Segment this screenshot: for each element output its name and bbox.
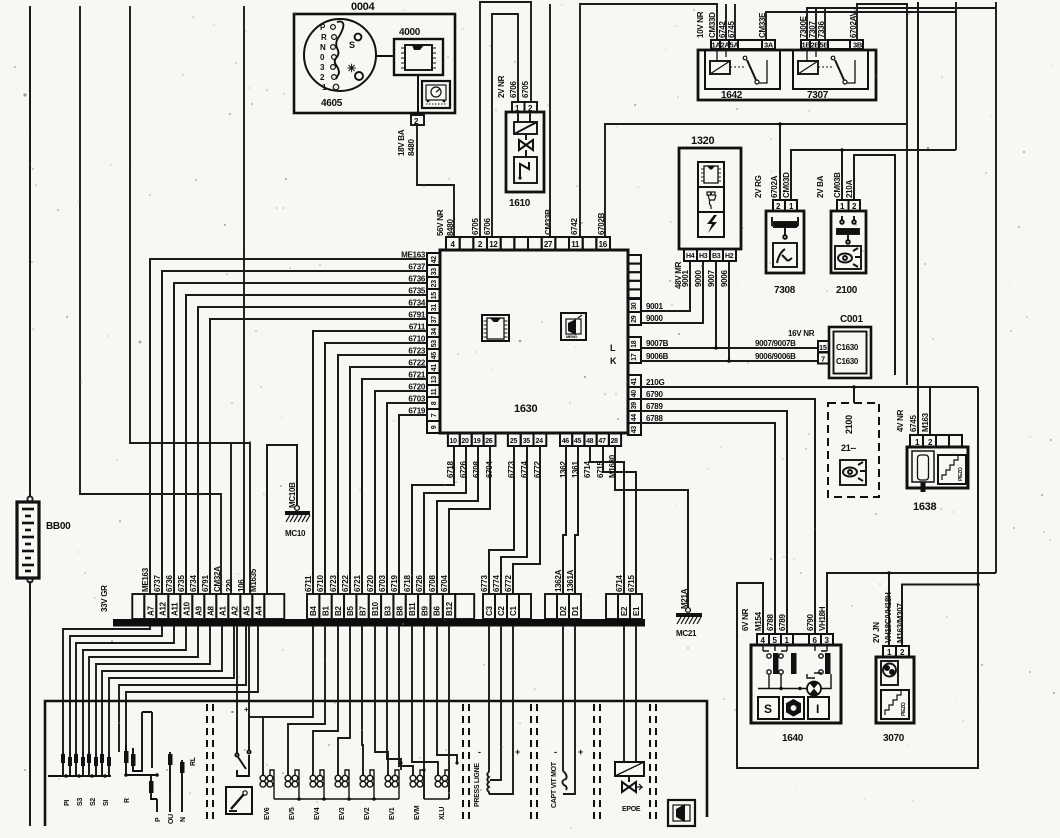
svg-text:6705: 6705 [521,81,530,98]
svg-text:33: 33 [431,268,438,276]
svg-text:17: 17 [631,353,638,361]
svg-text:C1630: C1630 [836,343,859,352]
pedal icon box [226,787,252,814]
svg-text:M154: M154 [754,611,763,631]
svg-text:9000: 9000 [646,314,663,323]
svg-text:27: 27 [544,240,553,249]
wire 210G ECU pin41 to right rail [641,386,978,388]
wire 6788 ECU to 1640 pin5 [641,423,775,634]
svg-text:6710: 6710 [316,575,325,592]
svg-text:M1630: M1630 [608,454,617,478]
svg-text:+: + [515,747,520,757]
wire 6702A junction to 7308 pin2 [779,124,781,200]
svg-text:ME163: ME163 [401,251,426,260]
svg-text:20: 20 [461,438,469,445]
wire L3 M1635 from top to A4 [130,6,250,594]
svg-text:37: 37 [431,316,438,324]
svg-text:I: I [816,702,819,716]
svg-text:6735: 6735 [177,575,186,592]
svg-text:42: 42 [431,256,438,264]
svg-text:4605: 4605 [321,98,343,109]
svg-text:CM33D: CM33D [708,12,717,38]
svg-text:1610: 1610 [509,198,531,209]
wire 6742 top rail to ECU pin 11 [580,4,735,237]
svg-text:6702AV: 6702AV [849,11,858,38]
svg-text:E2: E2 [620,606,629,616]
svg-text:6702B: 6702B [597,212,606,235]
svg-text:9006: 9006 [720,270,729,287]
svg-text:6706: 6706 [509,81,518,98]
relay 1642 [705,49,780,101]
wire 6706 ECU pin12 to 1610 pin1 [492,14,518,237]
svg-text:CM33B: CM33B [544,209,553,235]
svg-text:210A: 210A [845,180,854,198]
pins 1 2 of 1610 [512,102,537,112]
svg-text:EPOE: EPOE [622,806,641,813]
svg-text:S2: S2 [90,798,97,806]
svg-text:A5: A5 [242,606,251,616]
svg-text:0004: 0004 [351,1,375,13]
bottom gearbox unit box [45,701,707,826]
svg-text:12: 12 [489,240,498,249]
wire 210A 2100 pin2 to dashed 2100 box [854,155,895,403]
svg-text:1362: 1362 [559,461,568,478]
pin header 7307: 1B 2B 5B 3B [801,40,863,49]
svg-text:15: 15 [431,292,438,300]
svg-text:OU: OU [168,814,175,824]
wire 9000 ECU pin29 to 1320 H3 [641,261,703,323]
wires 1362 1361 ECU bottom to D2 D1 [563,446,578,594]
svg-text:6737: 6737 [408,263,425,272]
svg-text:CM03B: CM03B [833,172,842,198]
switch R [124,712,159,799]
svg-text:28: 28 [611,438,619,445]
sensor 7308 kickdown [773,200,797,211]
svg-text:11: 11 [571,240,580,249]
svg-text:PIEZO: PIEZO [901,702,907,716]
wire L1 left supply line [29,6,31,826]
svg-text:6789: 6789 [646,402,663,411]
svg-text:8480: 8480 [446,219,455,236]
wire 220 drop to A2 [230,443,232,594]
svg-text:6720: 6720 [408,383,425,392]
svg-text:6718: 6718 [403,575,412,592]
svg-text:6790: 6790 [806,614,815,631]
svg-text:9007/9007B: 9007/9007B [755,339,796,348]
wire 8480 18V BA down to ECU pin 4 [417,125,454,237]
svg-text:220: 220 [225,579,234,592]
svg-text:7308: 7308 [774,285,796,296]
svg-text:+: + [578,747,583,757]
wire L2 CM32A from top to A1 [80,6,221,594]
svg-text:106: 106 [237,579,246,592]
svg-text:24: 24 [536,438,544,445]
solenoid valve EPOE [624,626,636,762]
wire M154 U path [737,387,978,768]
svg-text:1361: 1361 [571,461,580,478]
svg-text:R: R [321,33,327,42]
svg-text:A8: A8 [206,606,215,616]
svg-text:6703: 6703 [378,575,387,592]
ECU bottom pin rows [448,433,621,446]
svg-text:46: 46 [562,438,570,445]
svg-text:6791: 6791 [201,575,210,592]
svg-text:41: 41 [431,364,438,372]
svg-text:B6: B6 [433,606,442,616]
svg-text:8480: 8480 [407,139,416,156]
svg-text:6706: 6706 [483,218,492,235]
wire 6702B net: 3B up over to x907 down to y124 across to ECU pin16 junction 6702A [605,4,907,385]
svg-text:1630: 1630 [514,403,537,415]
svg-text:6719: 6719 [390,575,399,592]
svg-text:CM03D: CM03D [782,172,791,198]
connector row A pins [132,594,284,619]
svg-text:6735: 6735 [408,287,425,296]
svg-text:6773: 6773 [480,575,489,592]
svg-text:EV2: EV2 [364,807,371,820]
connector row B pins [307,594,474,619]
svg-text:6742: 6742 [570,218,579,235]
svg-text:R: R [124,798,131,803]
svg-text:6742: 6742 [718,21,727,38]
svg-text:6722: 6722 [408,359,425,368]
wire 9006B ECU pin17 to C001 pin7 junction 9006 [641,261,818,361]
svg-text:H2: H2 [725,253,734,260]
svg-text:21--: 21-- [841,443,856,453]
svg-text:PRESS LIGNE: PRESS LIGNE [474,763,481,807]
svg-text:CM32A: CM32A [213,566,222,592]
svg-text:MC10B: MC10B [288,482,297,508]
svg-text:53: 53 [431,340,438,348]
svg-text:6722: 6722 [341,575,350,592]
svg-text:1638: 1638 [913,501,936,513]
svg-text:EV6: EV6 [264,807,271,820]
svg-text:19: 19 [473,438,481,445]
svg-text:9: 9 [431,425,438,429]
svg-text:29: 29 [631,315,638,323]
svg-text:K: K [610,356,617,366]
svg-text:35: 35 [523,438,531,445]
wire M163 y387 rail to 1638 pin2 [929,387,931,435]
lamp 2100 diag warning [837,200,860,211]
svg-text:6703: 6703 [408,395,425,404]
wire M1630 ECU pin28 to MC21 [615,446,688,608]
svg-text:7: 7 [431,413,438,417]
wires 6714 6715 ECU bottom to E2 E1 [590,446,636,594]
svg-text:6723: 6723 [329,575,338,592]
svg-text:C2: C2 [497,606,506,616]
svg-text:MEMO: MEMO [566,334,577,339]
valve 1610 canister purge [506,112,544,209]
svg-text:VH18H: VH18H [818,606,827,631]
wire 6705 ECU pin2 to 1610 pin2 [480,2,531,237]
svg-text:A9: A9 [194,606,203,616]
svg-text:6736: 6736 [165,575,174,592]
wire CM33E 3A up to y12 rail to x956 down to y150 [766,2,956,150]
kickdown contact with plus minus [235,714,250,776]
svg-text:18V BA: 18V BA [397,129,406,156]
svg-text:CAPT VIT MOT: CAPT VIT MOT [551,761,558,808]
svg-text:6788: 6788 [646,414,663,423]
svg-text:23: 23 [431,280,438,288]
svg-text:6720: 6720 [366,575,375,592]
svg-text:B3: B3 [383,606,392,616]
svg-text:MC10: MC10 [285,529,306,538]
svg-text:33V GR: 33V GR [100,585,109,612]
wires B pins to injector coils [263,626,457,799]
svg-text:VH18C/VH18H: VH18C/VH18H [884,592,893,643]
svg-text:-: - [554,747,557,757]
svg-text:C1: C1 [509,606,518,616]
svg-text:26: 26 [485,438,493,445]
svg-text:41: 41 [631,378,638,386]
svg-text:A11: A11 [170,602,179,616]
svg-text:C1630: C1630 [836,357,859,366]
svg-text:45: 45 [431,352,438,360]
ECU top pin row [446,237,610,250]
svg-text:PI: PI [64,800,71,806]
svg-text:✳: ✳ [347,63,356,75]
svg-text:45: 45 [574,438,582,445]
svg-text:B9: B9 [420,606,429,616]
svg-text:9001: 9001 [646,302,663,311]
svg-text:B4: B4 [309,606,318,616]
IC icon inside ECU [482,315,509,341]
switches PI S3 S2 SI [48,752,111,778]
svg-text:6723: 6723 [408,347,425,356]
pin header 1642: 1A 2A 5A 3A [711,40,775,49]
svg-text:A4: A4 [254,606,263,616]
wire 9007B ECU pin18 to C001 pin15 junction 9007 [641,261,818,348]
svg-text:B10: B10 [371,601,380,616]
svg-text:25: 25 [510,438,518,445]
svg-text:30: 30 [631,302,638,310]
kickdown feed to EV6 rail [249,716,263,718]
injector coils EV6..XLU [260,770,449,799]
sensor 3070 [883,646,909,657]
svg-text:M1635: M1635 [249,568,258,592]
svg-text:43: 43 [631,426,638,434]
svg-text:ME163: ME163 [141,567,150,592]
svg-text:M163: M163 [921,412,930,432]
svg-text:A1: A1 [218,606,227,616]
svg-text:+: + [244,705,249,714]
wire 6789 ECU to 1640 pin1 [641,411,787,634]
svg-text:D1: D1 [571,606,580,616]
relay 7307 [793,49,868,101]
relay box outer [698,50,876,100]
svg-text:E1: E1 [632,606,641,616]
svg-text:B11: B11 [408,602,417,616]
svg-text:9006/9006B: 9006/9006B [755,352,796,361]
svg-text:A2: A2 [230,606,239,616]
wire 7300E group 1B 2B 5B up to y8 rail to x996 down to y573 [807,2,996,573]
svg-text:RL: RL [190,756,197,766]
svg-text:48: 48 [586,438,594,445]
svg-text:6711: 6711 [304,575,313,592]
svg-text:MC21: MC21 [676,629,697,638]
svg-text:10V NR: 10V NR [696,11,705,38]
svg-text:44: 44 [631,414,638,422]
wire VH18H 1640 pin3 to right rail [827,573,996,634]
svg-text:6789: 6789 [778,614,787,631]
svg-text:3A: 3A [764,41,774,50]
wire 6790 ECU to 1640 pin6 [641,399,815,634]
svg-text:6711: 6711 [409,323,426,332]
svg-text:6736: 6736 [408,275,425,284]
svg-text:39: 39 [631,402,638,410]
svg-text:31: 31 [431,304,438,312]
pin header H4 H3 B3 H2 of 1320 [684,249,736,261]
nested wires A pins to switches [63,626,258,752]
svg-text:1320: 1320 [691,135,714,147]
speaker icon box [668,800,695,826]
svg-text:15: 15 [819,343,827,352]
instrument icon in 0004 [422,81,450,108]
svg-text:3B: 3B [853,41,863,50]
svg-text:16: 16 [599,240,608,249]
svg-text:9007: 9007 [707,270,716,287]
ground MC10 with hairpin wire [267,445,297,594]
pin 2 of 0004 [411,115,424,125]
dashed separators [207,704,656,822]
svg-text:H3: H3 [699,253,708,260]
svg-text:M163/M307: M163/M307 [896,603,905,643]
svg-text:2V JN: 2V JN [872,622,881,643]
common rail under injectors [274,798,449,800]
svg-text:6773: 6773 [507,461,516,478]
svg-text:1362A: 1362A [554,569,563,592]
wire labels above connector rows [141,566,636,592]
svg-text:6745: 6745 [909,415,918,432]
svg-text:5B: 5B [820,41,830,50]
svg-text:47: 47 [598,438,606,445]
svg-text:1642: 1642 [721,90,743,101]
wire 4000 to pin 2 [417,75,419,115]
svg-text:40: 40 [631,390,638,398]
svg-text:6715: 6715 [627,575,636,592]
svg-text:2V NR: 2V NR [497,75,506,98]
svg-text:6772: 6772 [504,575,513,592]
svg-text:6737: 6737 [153,575,162,592]
svg-text:PIEZO: PIEZO [958,467,964,481]
svg-text:6734: 6734 [189,575,198,592]
svg-text:6726: 6726 [459,461,468,478]
svg-text:9006B: 9006B [646,352,669,361]
1640 internals [758,645,831,696]
svg-text:6788: 6788 [766,614,775,631]
svg-text:6704: 6704 [485,461,494,478]
svg-text:6745: 6745 [727,21,736,38]
svg-text:EV3: EV3 [339,807,346,820]
svg-text:6791: 6791 [408,311,425,320]
wire CM33B to ECU pin 27 [549,4,551,237]
svg-text:EV1: EV1 [389,807,396,820]
ECU left pin column [427,253,440,433]
svg-text:BB00: BB00 [46,521,71,532]
svg-text:CM33E: CM33E [758,12,767,38]
svg-text:6704: 6704 [440,575,449,592]
svg-text:7307: 7307 [807,90,829,101]
labels under ECU bottom pins [446,454,617,478]
svg-text:C001: C001 [840,314,863,325]
svg-text:7: 7 [821,355,825,364]
svg-text:-: - [478,747,481,757]
svg-text:P: P [155,817,162,822]
svg-text:6V NR: 6V NR [741,608,750,631]
svg-text:6721: 6721 [408,371,425,380]
svg-text:B1: B1 [322,606,331,616]
svg-text:EV5: EV5 [289,807,296,820]
svg-text:11: 11 [431,388,438,395]
svg-text:EV4: EV4 [314,807,321,820]
speaker memo icon inside ECU [561,313,586,340]
wire 4605 to 4000 [376,55,394,57]
svg-text:6702A: 6702A [770,175,779,198]
svg-text:H4: H4 [686,253,695,260]
svg-text:34: 34 [431,328,438,336]
svg-text:L: L [610,343,616,353]
svg-text:16V NR: 16V NR [788,329,815,338]
control unit 1640 [757,634,833,645]
svg-text:6734: 6734 [408,299,425,308]
svg-text:S: S [764,702,772,716]
svg-text:B2: B2 [334,606,343,616]
svg-text:N: N [180,817,187,822]
svg-text:N: N [320,43,326,52]
svg-text:6708: 6708 [472,461,481,478]
svg-text:6714: 6714 [583,461,592,478]
svg-text:6714: 6714 [615,575,624,592]
svg-text:A7: A7 [146,606,155,616]
svg-text:2100: 2100 [836,285,858,296]
svg-text:9007B: 9007B [646,339,669,348]
switch 4605 ignition key positions [304,19,376,109]
svg-text:2100: 2100 [844,415,854,434]
connector row D pins [545,594,581,619]
svg-text:B8: B8 [396,606,405,616]
svg-text:2V BA: 2V BA [816,175,825,198]
svg-text:6774: 6774 [520,461,529,478]
svg-text:7307: 7307 [808,21,817,38]
svg-text:6726: 6726 [415,575,424,592]
wire L4 106 from top to A5 [243,6,245,594]
wires 6773 6774 6772 ECU bottom to C3 C2 C1 [489,446,540,594]
P OU N position contacts [157,752,185,812]
ECU 1630 [440,250,628,433]
svg-text:3070: 3070 [883,733,905,744]
dashed option box 2100 [828,403,879,497]
svg-text:10: 10 [450,438,458,445]
svg-text:A12: A12 [158,601,167,616]
svg-text:A10: A10 [182,601,191,616]
svg-text:5A: 5A [730,41,740,50]
svg-text:6718: 6718 [446,461,455,478]
svg-text:6790: 6790 [646,390,663,399]
bus bar 33V GR [113,619,645,627]
wire 6745 top to 1638 pin1 [917,2,919,435]
svg-text:6774: 6774 [492,575,501,592]
svg-text:6772: 6772 [533,461,542,478]
svg-text:4V NR: 4V NR [896,409,905,432]
svg-text:7300E: 7300E [799,15,808,38]
svg-text:1640: 1640 [782,733,804,744]
svg-text:D2: D2 [559,606,568,616]
connector row C pins [483,594,531,619]
svg-text:7336: 7336 [817,21,826,38]
svg-text:C3: C3 [485,606,494,616]
svg-text:6721: 6721 [353,575,362,592]
